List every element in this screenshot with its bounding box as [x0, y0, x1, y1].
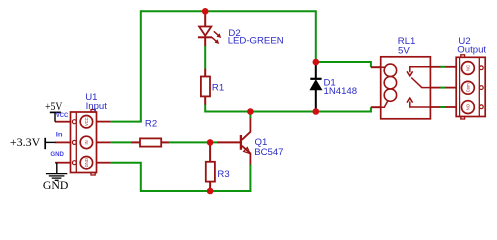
- led D2 emission arrow 2: [212, 37, 219, 44]
- connector U1 rail line: [75, 112, 77, 173]
- relay blade: [411, 78, 422, 88]
- node junction dot D1 bottom: [313, 108, 320, 115]
- wire U1 pin3 bottom rail (green): [111, 163, 252, 191]
- wire LED anode lead (red): [204, 11, 206, 26]
- wire gnd to pin3 (black): [56, 163, 58, 174]
- led D2 emission arrow 1: [214, 31, 221, 38]
- relay coil loop 2: [384, 77, 396, 89]
- svg-text:R3: R3: [217, 169, 229, 180]
- connector U1 top nub: [91, 110, 95, 113]
- diode D1 anode lead (black): [315, 90, 317, 112]
- relay NC contact: [410, 67, 431, 73]
- supply +5V bar: [50, 111, 61, 113]
- connector U1 left pin 2: [55, 141, 71, 143]
- svg-text:VCC: VCC: [56, 112, 69, 119]
- relay NC arrow: [407, 71, 413, 76]
- wire LED to R1 (green): [204, 46, 206, 70]
- relay RL1 box: [381, 57, 431, 119]
- wire +5V to pin1 (black): [54, 112, 56, 121]
- wire relay NO pin to U2: [430, 106, 456, 108]
- svg-text:1N4148: 1N4148: [324, 86, 358, 97]
- wire R2 left lead (red): [132, 141, 141, 143]
- connector U1 right pin 1: [97, 121, 111, 123]
- node junction dot D1 top: [313, 59, 320, 66]
- connector U2 body: [456, 57, 485, 116]
- wire jog up to relay coil bottom pin (green): [370, 107, 372, 112]
- svg-text:NC: NC: [466, 65, 471, 71]
- wire relay coil bottom pin lead (red): [371, 106, 382, 108]
- wire emitter to bottom rail (green): [249, 165, 251, 193]
- relay NO arrow: [407, 98, 413, 103]
- resistor R2: [140, 138, 161, 146]
- wire relay coil top pin lead (red): [371, 66, 382, 68]
- connector U1 clamp circle 3: [72, 161, 76, 165]
- svg-text:+3.3V: +3.3V: [10, 137, 41, 149]
- connector U1 left pin 1: [55, 121, 71, 123]
- svg-text:Output: Output: [457, 45, 486, 56]
- input +3.3V bracket: [44, 138, 46, 149]
- svg-text:GND: GND: [50, 151, 64, 158]
- node junction dot top LED branch: [202, 8, 209, 15]
- diode D1 triangle: [310, 80, 321, 90]
- wire +3.3V to pin2 (black): [45, 141, 55, 143]
- wire U1 pin1 to left vertical: [111, 121, 142, 123]
- relay NO contact: [410, 102, 431, 108]
- wire U1 pin2 to R2 (green): [111, 141, 132, 143]
- connector U2 clamp circle 1: [479, 66, 483, 70]
- connector U1 bottom nub: [91, 173, 95, 176]
- connector U2 top nub: [461, 55, 465, 58]
- ground symbol: [46, 174, 67, 181]
- wire R1 top lead (red): [204, 69, 206, 77]
- svg-text:R1: R1: [212, 83, 224, 94]
- connector U1 clamp circle 2: [72, 140, 76, 144]
- svg-text:GND: GND: [84, 158, 89, 167]
- wire relay COM pin to U2: [430, 87, 456, 89]
- wire right vertical top to D1 (green): [315, 10, 317, 62]
- relay coil bottom connect: [381, 101, 388, 107]
- svg-text:VCC: VCC: [84, 117, 89, 126]
- wire D1 top to relay jog (green): [316, 62, 371, 67]
- transistor Q1 base bar: [240, 135, 242, 150]
- svg-text:R2: R2: [145, 119, 157, 130]
- connector U2 screw circle NO: [462, 101, 475, 114]
- svg-text:GND: GND: [43, 180, 69, 192]
- connector U1 screw circle pin1: [80, 116, 92, 128]
- svg-text:BC547: BC547: [254, 147, 283, 158]
- svg-text:LED-GREEN: LED-GREEN: [228, 36, 284, 47]
- resistor R3: [206, 162, 215, 182]
- relay coil loop 1: [384, 64, 396, 76]
- wire left vertical: [140, 10, 142, 121]
- node junction dot collector: [247, 108, 254, 115]
- connector U1 body: [71, 112, 97, 173]
- connector U2 rail line: [478, 57, 480, 116]
- connector U2 inner left line: [459, 57, 461, 116]
- wire R3 bottom lead (red): [209, 182, 211, 191]
- relay COM line: [421, 87, 430, 89]
- wire R2 to base (green): [169, 141, 218, 143]
- diode D1 cathode bar: [310, 78, 321, 80]
- connector U2 clamp circle 2: [479, 86, 483, 90]
- connector U1 right pin 3: [97, 162, 111, 164]
- connector U1 left pin 3: [55, 162, 71, 164]
- wire R1 to bottom rail (green): [205, 105, 372, 112]
- relay coil loop 3: [384, 89, 396, 101]
- connector U1 screw circle pin2: [80, 136, 92, 148]
- svg-text:In: In: [56, 131, 63, 138]
- node junction dot R3 bottom: [207, 188, 214, 195]
- node junction dot R3 top: [207, 139, 214, 146]
- wire R2 right lead (red): [161, 141, 169, 143]
- resistor R1: [201, 77, 210, 97]
- connector U2 bottom nub: [461, 117, 465, 120]
- wire top horizontal net: [141, 10, 316, 12]
- wire relay NC pin to U2: [430, 66, 456, 68]
- wire R1 bottom lead (red): [204, 96, 206, 105]
- led D2 cathode bar: [198, 36, 212, 38]
- wire collector to rail (green): [249, 112, 251, 119]
- transistor Q1 emitter with arrow: [242, 146, 251, 165]
- svg-text:NO: NO: [466, 103, 471, 110]
- connector U1 clamp circle 1: [72, 120, 76, 124]
- led D2 triangle: [199, 27, 211, 36]
- wire R3 top lead (red): [209, 142, 211, 162]
- svg-text:IN: IN: [84, 140, 89, 144]
- diode D1 cathode lead (black): [315, 62, 317, 79]
- wire LED cathode lead (red): [204, 37, 206, 46]
- svg-text:Com: Com: [466, 83, 471, 92]
- svg-text:5V: 5V: [398, 46, 410, 57]
- connector U1 right pin 2: [97, 141, 111, 143]
- wire Q1 base lead (red): [217, 141, 240, 143]
- connector U2 screw circle NC: [462, 62, 475, 75]
- connector U2 clamp circle 3: [479, 105, 483, 109]
- connector U2 screw circle Com: [462, 81, 475, 94]
- transistor Q1 collector: [242, 117, 251, 140]
- relay coil top connect: [381, 66, 386, 68]
- svg-text:Input: Input: [86, 101, 108, 112]
- connector U1 screw circle pin3: [80, 157, 92, 169]
